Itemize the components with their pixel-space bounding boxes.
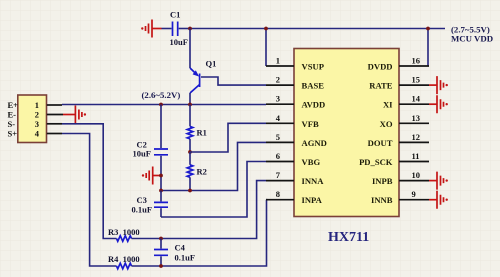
wire: S+ down to R4: [62, 134, 117, 267]
pin 9 INNB: [371, 189, 429, 205]
svg-text:R3 1000: R3 1000: [108, 227, 140, 237]
svg-text:VSUP: VSUP: [302, 62, 324, 72]
svg-text:10uF: 10uF: [170, 37, 188, 47]
capacitor C1: [170, 10, 188, 48]
svg-text:15: 15: [412, 75, 421, 85]
junction rail / pin1 drop: [264, 27, 268, 31]
svg-text:HX711: HX711: [328, 230, 369, 245]
ground GND (AGND tap): [142, 167, 161, 185]
ground GND (INPB pin 10): [429, 172, 448, 190]
svg-text:2: 2: [276, 75, 280, 85]
junction AGND row / R2: [188, 189, 192, 193]
pin 16 DVDD: [368, 56, 429, 72]
svg-text:9: 9: [412, 189, 416, 199]
pin stub J1-1: [47, 104, 62, 106]
wire: rail to C2: [160, 105, 162, 149]
wire: Q1 base to BASE pin 2: [201, 77, 266, 85]
wire: R3 to INNA pin 7: [132, 181, 267, 239]
svg-text:DOUT: DOUT: [368, 138, 393, 148]
pin 3 AVDD: [266, 94, 325, 110]
pin 8 INPA: [266, 189, 323, 205]
svg-text:INPB: INPB: [372, 176, 393, 186]
pin stub J1-2: [47, 114, 63, 116]
wire: C3 bottom to VBG pin 6: [161, 162, 266, 218]
transistor Q1: [190, 29, 216, 105]
pin 5 AGND: [266, 132, 327, 148]
svg-text:AGND: AGND: [302, 138, 327, 148]
capacitor C2: [133, 140, 169, 159]
resistor R4: [108, 254, 140, 269]
svg-text:DVDD: DVDD: [368, 62, 393, 72]
wire: rail drop to pin 16 DVDD: [427, 29, 429, 67]
wire: C1 to VSUP rail: [179, 28, 190, 30]
svg-text:3: 3: [276, 94, 280, 104]
pin 4 VFB: [266, 113, 319, 129]
pin 2 BASE: [266, 75, 324, 91]
svg-text:R2: R2: [197, 167, 207, 177]
ground GND (INNB pin 9): [429, 191, 448, 209]
power terminal MCU VDD: [451, 25, 493, 44]
junction rail / pin16 drop: [426, 27, 430, 31]
wire: ground to C1: [162, 28, 172, 30]
junction rail / C2: [159, 103, 163, 107]
pin 13 XO: [380, 113, 429, 129]
svg-text:R1: R1: [197, 128, 207, 138]
svg-text:INNB: INNB: [371, 195, 393, 205]
svg-text:1: 1: [276, 56, 280, 66]
ground GND (XI pin 14): [429, 95, 448, 113]
junction R4 row / C4: [159, 264, 163, 268]
pin stub J1-3: [47, 123, 62, 125]
svg-text:C1: C1: [170, 10, 180, 20]
svg-text:AVDD: AVDD: [302, 100, 326, 110]
svg-text:C3: C3: [137, 195, 147, 205]
junction rail / Q1 collector / R1: [188, 103, 192, 107]
connector J1 (load cell): [8, 95, 47, 143]
svg-text:6: 6: [276, 151, 280, 161]
svg-text:(2.6~5.2V): (2.6~5.2V): [142, 90, 181, 100]
svg-text:R4 1000: R4 1000: [108, 254, 140, 264]
svg-text:5: 5: [276, 132, 280, 142]
pin 12 DOUT: [368, 132, 429, 148]
pin 11 PD_SCK: [359, 151, 429, 167]
wire: R1/R2 node to VFB pin 4: [190, 123, 266, 152]
pin 7 INNA: [266, 170, 324, 186]
pin 10 INPB: [372, 170, 429, 186]
junction at C1 / Q1 emitter: [188, 27, 192, 31]
svg-text:3: 3: [35, 119, 39, 129]
svg-text:13: 13: [412, 113, 421, 123]
pin 14 XI: [383, 94, 429, 110]
resistor R3: [108, 227, 140, 241]
ground GND (RATE pin 15): [429, 76, 448, 94]
svg-text:S+: S+: [8, 129, 18, 139]
wire VSUP rail (to MCU VDD terminal): [190, 28, 445, 30]
resistor R2: [187, 152, 207, 191]
ground GND (E- pin 2): [63, 106, 86, 124]
svg-text:12: 12: [412, 132, 421, 142]
svg-text:8: 8: [276, 189, 280, 199]
svg-text:RATE: RATE: [369, 81, 393, 91]
svg-text:XI: XI: [383, 100, 393, 110]
wire: R4 to INPA pin 8: [132, 200, 267, 266]
junction R1/R2/VFB: [188, 150, 192, 154]
svg-text:C4: C4: [175, 243, 186, 253]
svg-text:VFB: VFB: [302, 119, 319, 129]
svg-text:E-: E-: [8, 110, 17, 120]
svg-text:1: 1: [35, 100, 39, 110]
pin stub J1-4: [47, 133, 62, 135]
wire: rail drop to pin 1 VSUP: [265, 29, 267, 67]
wire: S- down to R3: [62, 124, 117, 239]
junction C2 wire / ground tap: [159, 174, 163, 178]
IC U1 HX711 body: [294, 49, 399, 246]
svg-text:0.1uF: 0.1uF: [175, 253, 196, 263]
junction AGND row / C2-C3: [159, 189, 163, 193]
wire AGND row: node to AGND pin 5: [161, 142, 266, 190]
svg-text:10uF: 10uF: [133, 149, 151, 159]
pin 1 VSUP: [266, 56, 324, 72]
svg-text:S-: S-: [8, 119, 16, 129]
svg-text:0.1uF: 0.1uF: [132, 205, 153, 215]
capacitor C3: [132, 191, 169, 218]
svg-text:14: 14: [412, 94, 421, 104]
svg-text:16: 16: [412, 56, 421, 66]
svg-text:2: 2: [35, 110, 39, 120]
svg-text:E+: E+: [8, 100, 19, 110]
svg-text:INPA: INPA: [302, 195, 323, 205]
pin 15 RATE: [369, 75, 429, 91]
svg-text:VBG: VBG: [302, 157, 321, 167]
pin 6 VBG: [266, 151, 320, 167]
svg-text:INNA: INNA: [302, 176, 325, 186]
wire: C2 to AGND node: [160, 156, 162, 191]
svg-text:XO: XO: [380, 119, 393, 129]
wire AVDD rail: E+ to chip pin 3: [62, 104, 266, 106]
svg-text:Q1: Q1: [206, 59, 217, 69]
capacitor C4: [154, 239, 195, 267]
svg-text:10: 10: [412, 170, 421, 180]
junction R3 row / C4: [159, 237, 163, 241]
svg-text:BASE: BASE: [302, 81, 325, 91]
svg-text:MCU VDD: MCU VDD: [451, 34, 493, 44]
ground GND top-left (C1 return): [141, 20, 161, 38]
resistor R1: [187, 105, 207, 153]
svg-text:11: 11: [412, 151, 420, 161]
svg-text:PD_SCK: PD_SCK: [359, 157, 393, 167]
